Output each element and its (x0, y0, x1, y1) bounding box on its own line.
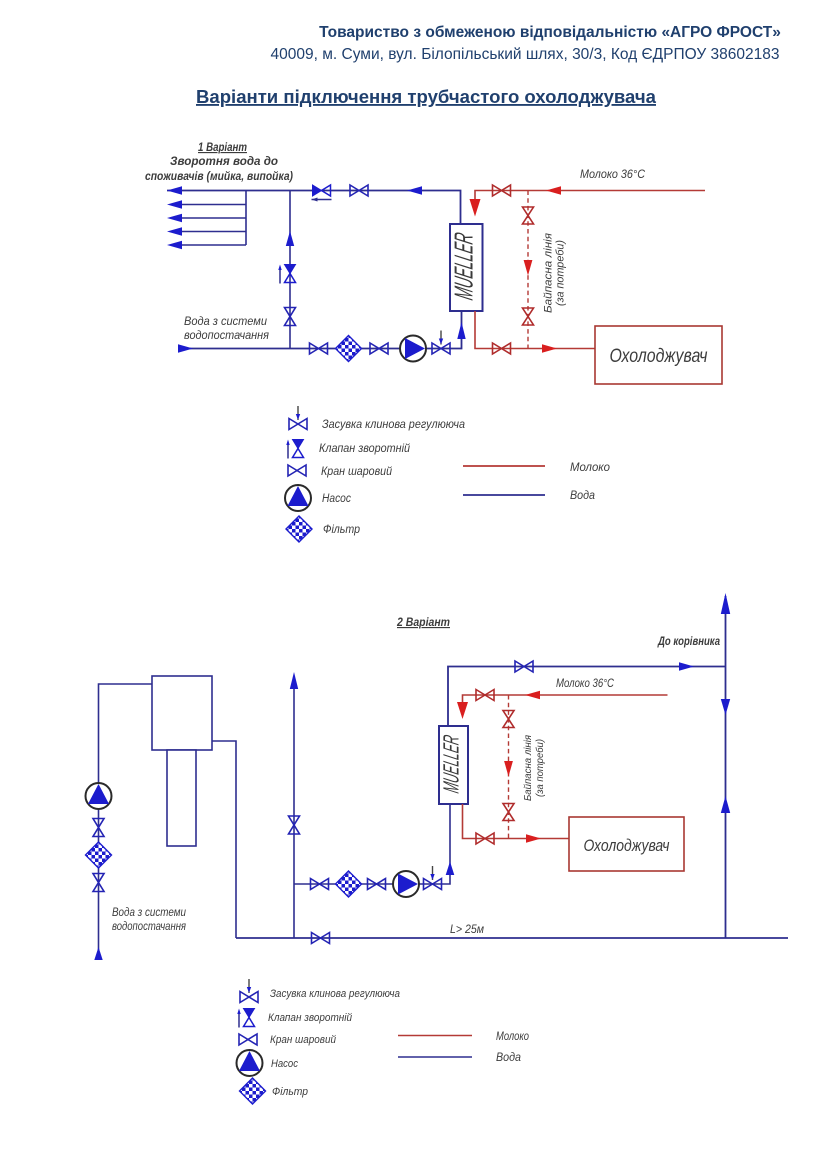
svg-text:Молоко: Молоко (570, 460, 610, 474)
wire vertical branch x290 (289, 191, 291, 349)
cooler box d1 (595, 326, 722, 384)
arrow up into mueller d2 (446, 862, 455, 876)
tank neck (167, 750, 196, 846)
legend2 ball valve icon (239, 1034, 257, 1045)
wire left vertical d2 (99, 684, 153, 952)
svg-text:2 Варіант: 2 Варіант (396, 617, 450, 629)
ball valve middle vertical d2 (289, 816, 300, 834)
wire pump pipe d2 (294, 804, 450, 884)
arrow middle vertical top d2 (290, 672, 298, 689)
svg-text:Молоко 36°С: Молоко 36°С (556, 678, 615, 690)
check valve top line (312, 185, 332, 202)
arrow red bypass down d2 (504, 761, 513, 777)
wire red milk top d1 (475, 191, 705, 201)
pump pipe d2 (393, 871, 419, 897)
arrow consumer 5 (167, 241, 182, 249)
arrow red flow right d1 (542, 344, 557, 352)
svg-text:Байпасна лінія: Байпасна лінія (522, 735, 534, 801)
ball valve d2 left lower (93, 874, 104, 892)
MUELLER box d1 (449, 224, 483, 311)
legend1 gate valve icon (289, 406, 307, 430)
ball valve branch (285, 308, 296, 326)
svg-text:Охолоджувач: Охолоджувач (610, 346, 708, 367)
legend2 water line (398, 1056, 472, 1058)
arrow right top d2 (679, 662, 694, 670)
wire tank outlet (212, 741, 236, 938)
wire red milk bottom d1 (475, 311, 595, 349)
svg-text:(за потреби): (за потреби) (555, 240, 567, 306)
arrow consumer 1 (167, 186, 182, 194)
arrow red down into mueller d2 (457, 702, 468, 719)
red valve top d1 (493, 185, 511, 196)
gate valve d1 (432, 331, 450, 355)
svg-text:Варіанти підключення трубчасто: Варіанти підключення трубчастого охолодж… (196, 86, 657, 107)
legend1 pump icon (285, 485, 311, 511)
svg-text:MUELLER: MUELLER (439, 733, 464, 795)
wire red bypass dashed d2 (508, 695, 510, 839)
svg-text:Кран шаровий: Кран шаровий (270, 1034, 336, 1046)
filter d2 left (86, 842, 112, 868)
arrow red flow left d1 (546, 186, 561, 194)
gate valve pipe d2 (424, 866, 442, 890)
svg-text:водопостачання: водопостачання (184, 328, 270, 342)
wire comb row3 (171, 217, 246, 219)
svg-text:1 Варіант: 1 Варіант (198, 142, 247, 154)
svg-text:Клапан зворотній: Клапан зворотній (319, 443, 411, 455)
svg-text:Кран шаровий: Кран шаровий (321, 466, 393, 478)
wire right vertical d2 (725, 596, 727, 938)
ball valve top line (350, 185, 368, 196)
svg-text:Насос: Насос (322, 493, 351, 505)
wire bottom line d2 (236, 937, 788, 939)
legend2 gate valve icon (240, 979, 258, 1003)
svg-text:MUELLER: MUELLER (449, 230, 479, 302)
arrow red flow left d2 (525, 691, 540, 699)
red valve bottom d2 (476, 833, 494, 844)
legend1 filter icon (286, 516, 312, 542)
svg-text:Молоко: Молоко (496, 1031, 529, 1043)
pump d1 (400, 336, 426, 362)
ball valve d2 left upper (93, 819, 104, 837)
legend1 water line (463, 494, 545, 496)
ball valve pipe2 d2 (368, 879, 386, 890)
wire mueller out top d2 (448, 667, 726, 727)
svg-text:Фільтр: Фільтр (323, 524, 361, 536)
ball valve pipe1 d2 (311, 879, 329, 890)
red valve top d2 (476, 690, 494, 701)
flow arrow into cooler bottom d1 (457, 322, 465, 339)
arrow red flow right d2 (526, 834, 541, 842)
legend2 milk line (398, 1035, 472, 1037)
arrow consumer 2 (167, 200, 182, 208)
ball valve bottom line d2 (312, 933, 330, 944)
MUELLER box d2 (439, 726, 468, 804)
wire comb row4 (171, 231, 246, 233)
arrow top right vertical d2 (721, 593, 730, 614)
pump d2 left (86, 783, 112, 809)
svg-text:Вода: Вода (496, 1052, 521, 1064)
red bypass valve top d2 (503, 711, 514, 728)
ball valve bottom2 d1 (370, 343, 388, 354)
svg-text:Засувка клинова регулююча: Засувка клинова регулююча (270, 988, 400, 1000)
arrow water inlet d2 (94, 947, 102, 960)
legend2 filter icon (240, 1078, 266, 1104)
wire comb row2 (171, 204, 246, 206)
wire top blue line (167, 191, 461, 225)
cooler box d2 (569, 817, 684, 871)
legend2 check valve icon (237, 1009, 254, 1028)
svg-text:(за потреби): (за потреби) (534, 739, 546, 797)
legend1 ball valve icon (288, 465, 306, 476)
filter pipe d2 (336, 871, 362, 897)
svg-text:Байпасна лінія: Байпасна лінія (543, 233, 555, 313)
legend1 milk line (463, 465, 545, 467)
red bypass valve top d1 (523, 207, 534, 224)
arrow consumer 4 (167, 227, 182, 235)
wire bottom blue line d1 (178, 311, 462, 349)
wire comb row5 (171, 244, 246, 246)
arrow red down into mueller d1 (470, 199, 481, 217)
arrow down right vertical d2 (721, 699, 730, 715)
svg-text:Насос: Насос (271, 1058, 298, 1070)
legend2 pump icon (237, 1050, 263, 1076)
red bypass valve bottom d1 (523, 308, 534, 325)
svg-text:Засувка клинова регулююча: Засувка клинова регулююча (322, 419, 465, 431)
svg-text:Охолоджувач: Охолоджувач (584, 836, 670, 855)
svg-text:L> 25м: L> 25м (450, 922, 484, 936)
legend1 check valve icon (286, 440, 303, 459)
svg-text:Зворотня вода до: Зворотня вода до (170, 156, 278, 168)
red valve bottom d1 (493, 343, 511, 354)
svg-text:Фільтр: Фільтр (272, 1086, 308, 1098)
ball valve top d2 (515, 661, 533, 672)
arrow water inlet d1 (178, 344, 193, 352)
svg-text:Товариство з обмеженою відпові: Товариство з обмеженою відповідальністю … (319, 24, 781, 41)
wire red bypass dashed d1 (527, 191, 529, 349)
svg-text:Вода з системи: Вода з системи (184, 314, 267, 328)
svg-text:Вода: Вода (570, 488, 595, 502)
svg-text:40009, м. Суми, вул. Білопільс: 40009, м. Суми, вул. Білопільський шлях,… (271, 46, 780, 63)
tank body (152, 676, 212, 750)
svg-text:До корівника: До корівника (657, 636, 720, 648)
arrow consumer 3 (167, 214, 182, 222)
wire middle vertical d2 (293, 676, 295, 938)
svg-text:споживачів (мийка, випойка): споживачів (мийка, випойка) (145, 171, 293, 183)
wire comb spine (245, 191, 247, 246)
flow arrow top line (407, 186, 422, 194)
svg-text:Вода з системи: Вода з системи (112, 907, 187, 919)
wire red milk bottom d2 (463, 804, 570, 839)
red bypass valve bottom d2 (503, 804, 514, 821)
svg-text:Клапан зворотній: Клапан зворотній (268, 1012, 352, 1024)
ball valve bottom d1 (310, 343, 328, 354)
filter d1 (336, 336, 362, 362)
flow arrow up branch (286, 231, 294, 246)
check valve branch (278, 265, 295, 284)
wire red milk top d2 (463, 695, 668, 703)
svg-text:Молоко 36°С: Молоко 36°С (580, 167, 645, 181)
svg-text:водопостачання: водопостачання (112, 921, 186, 933)
arrow red bypass down d1 (524, 260, 533, 276)
arrow up right vertical d2 (721, 796, 730, 813)
